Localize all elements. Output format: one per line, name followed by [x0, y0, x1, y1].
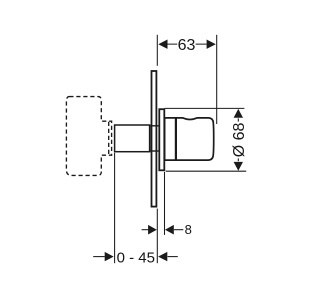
dim Ø68: top extension line: [165, 107, 245, 109]
dim Ø68: line segments: [237, 118, 239, 161]
dim 63: right arrow: [207, 40, 216, 49]
dim 63: left extension line: [156, 35, 158, 66]
svg-text:Ø 68: Ø 68: [231, 122, 248, 157]
dim Ø68: bottom arrow: [234, 162, 243, 171]
svg-text:0 - 45: 0 - 45: [117, 250, 155, 267]
dim Ø68: bottom extension line: [166, 170, 247, 172]
handle: [165, 118, 214, 160]
dim 8: right arrow: [165, 225, 174, 235]
dim 8: right tail: [174, 229, 184, 231]
escutcheon: [159, 109, 164, 170]
dim 0-45: left extension line: [114, 153, 116, 263]
dim 0-45: left tail: [93, 256, 105, 258]
handle grip line: [175, 118, 177, 160]
dim 8: left arrow: [148, 225, 157, 235]
wall plate: [152, 71, 157, 207]
dim 0-45: left arrow: [105, 252, 114, 261]
dim 8: left tail: [142, 229, 149, 231]
dim 8: right extension line: [164, 172, 166, 235]
valve stem: [115, 125, 150, 152]
svg-text:8: 8: [185, 222, 192, 237]
dim Ø68: top arrow: [234, 109, 243, 118]
stem tube through wall plate: [150, 126, 160, 151]
svg-text:63: 63: [178, 37, 196, 54]
dim 63: left arrow: [158, 40, 167, 49]
dim 8: left extension line: [156, 209, 158, 264]
concealed valve body (dashed outline): [66, 97, 111, 176]
dim 0-45: right tail: [168, 256, 178, 258]
dim 63: right extension line: [216, 35, 218, 124]
dim 63: line segments: [167, 43, 206, 45]
cartridge edge (internal dashed line): [108, 122, 110, 155]
dim 0-45: right arrow: [158, 252, 167, 261]
